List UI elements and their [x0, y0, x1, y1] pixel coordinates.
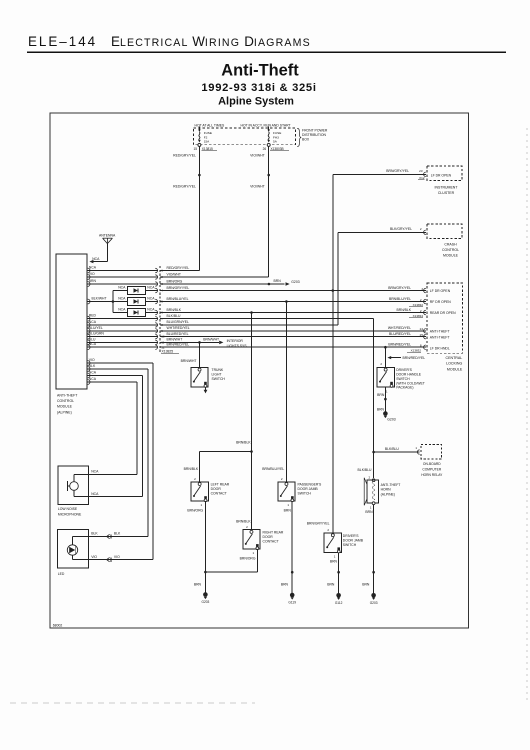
svg-text:X13832: X13832: [411, 349, 422, 353]
svg-text:BRN: BRN: [330, 560, 338, 564]
svg-text:BRN: BRN: [365, 510, 373, 514]
svg-text:WHT/RED/YEL: WHT/RED/YEL: [167, 326, 190, 330]
svg-text:BLK/GRY/YEL: BLK/GRY/YEL: [390, 227, 412, 231]
svg-text:REAR DR OPEN: REAR DR OPEN: [430, 311, 456, 315]
svg-text:NCA: NCA: [147, 286, 155, 290]
svg-text:15: 15: [193, 147, 197, 151]
svg-text:NCA: NCA: [91, 492, 99, 496]
svg-text:HOT IN ACCY, RUN AND START: HOT IN ACCY, RUN AND START: [241, 124, 291, 128]
svg-text:RF DR OPEN: RF DR OPEN: [430, 300, 451, 304]
svg-text:BRN/RED/YEL: BRN/RED/YEL: [403, 356, 426, 360]
svg-text:G203: G203: [370, 601, 378, 605]
svg-text:BRN/BLK: BRN/BLK: [236, 441, 251, 445]
svg-text:VIO/WHT: VIO/WHT: [167, 272, 182, 276]
svg-text:NCA: NCA: [147, 308, 155, 312]
svg-text:PACKAGE): PACKAGE): [396, 386, 413, 390]
svg-text:BRN/BLK: BRN/BLK: [396, 308, 411, 312]
svg-text:ANTI-THEFT: ANTI-THEFT: [430, 335, 450, 339]
svg-text:ELECTRICAL WIRING DIAGRAMS: ELECTRICAL WIRING DIAGRAMS: [111, 34, 311, 49]
svg-text:15A: 15A: [204, 139, 210, 143]
svg-text:G203: G203: [201, 600, 209, 604]
svg-text:RED/GRY/YEL: RED/GRY/YEL: [173, 184, 196, 188]
svg-text:BLU/GRN/YEL: BLU/GRN/YEL: [167, 320, 190, 324]
svg-text:LED: LED: [58, 572, 65, 576]
svg-text:BRN/RED/YEL: BRN/RED/YEL: [167, 343, 190, 347]
svg-text:SWITCH: SWITCH: [396, 377, 410, 381]
svg-text:CENTRAL: CENTRAL: [446, 356, 463, 360]
svg-text:FRONT POWER: FRONT POWER: [302, 129, 328, 133]
svg-text:HORN RELAY: HORN RELAY: [421, 473, 443, 477]
svg-text:CRASH: CRASH: [444, 242, 457, 246]
svg-text:ANTENNA: ANTENNA: [99, 234, 116, 238]
svg-text:Anti-Theft: Anti-Theft: [221, 62, 299, 80]
svg-text:BRN/BLK: BRN/BLK: [236, 520, 251, 524]
svg-text:BOX: BOX: [302, 138, 310, 142]
svg-text:INTERIOR: INTERIOR: [227, 339, 244, 343]
svg-text:25: 25: [420, 333, 424, 337]
svg-text:BLK/BLU: BLK/BLU: [358, 468, 372, 472]
svg-text:BRN/BLU/YEL: BRN/BLU/YEL: [167, 297, 189, 301]
svg-text:CONTACT: CONTACT: [211, 492, 227, 496]
svg-text:LF DR OPEN: LF DR OPEN: [431, 173, 452, 177]
svg-text:BLK/BLU: BLK/BLU: [385, 447, 399, 451]
svg-text:BRN: BRN: [362, 583, 370, 587]
svg-text:CONTROL: CONTROL: [442, 248, 459, 252]
svg-text:X13834: X13834: [413, 314, 424, 318]
svg-text:Alpine System: Alpine System: [218, 96, 294, 108]
svg-text:MODULE: MODULE: [447, 367, 463, 371]
svg-text:G119: G119: [288, 601, 296, 605]
svg-text:RED/GRY/YEL: RED/GRY/YEL: [167, 266, 190, 270]
svg-text:BRN/GRY/YEL: BRN/GRY/YEL: [307, 521, 330, 525]
svg-text:BRN: BRN: [274, 279, 282, 283]
svg-text:LIGHTS SYS: LIGHTS SYS: [227, 344, 248, 348]
svg-text:BRN/ORG: BRN/ORG: [187, 508, 203, 512]
svg-text:DOOR JAMB: DOOR JAMB: [343, 539, 364, 543]
svg-text:X13832: X13832: [413, 303, 424, 307]
svg-text:RED/GRY/YEL: RED/GRY/YEL: [173, 154, 196, 158]
svg-text:NCA: NCA: [89, 342, 97, 346]
svg-text:LF DR OPEN: LF DR OPEN: [430, 289, 451, 293]
svg-text:BRN/ORG: BRN/ORG: [167, 279, 183, 283]
svg-text:BRN/ORG: BRN/ORG: [240, 556, 256, 560]
svg-text:BRN/BLU/YEL: BRN/BLU/YEL: [389, 297, 411, 301]
svg-text:(ALPINE): (ALPINE): [57, 410, 72, 414]
svg-text:DOOR JAMB: DOOR JAMB: [298, 487, 319, 491]
svg-text:BLK/WHT: BLK/WHT: [92, 296, 107, 300]
svg-text:BRN: BRN: [89, 279, 97, 283]
svg-text:VIO: VIO: [89, 358, 95, 362]
svg-text:CONTACT: CONTACT: [263, 540, 279, 544]
svg-text:RED: RED: [89, 314, 97, 318]
svg-text:NCA: NCA: [91, 470, 99, 474]
svg-text:DRIVER'S: DRIVER'S: [396, 368, 412, 372]
svg-text:BRN/RED/YEL: BRN/RED/YEL: [388, 343, 411, 347]
svg-text:SWITCH: SWITCH: [343, 543, 357, 547]
svg-text:BRN/WHT: BRN/WHT: [203, 338, 219, 342]
svg-text:BLK: BLK: [89, 364, 96, 368]
svg-text:68002: 68002: [53, 624, 63, 628]
svg-text:WHT/RED/YEL: WHT/RED/YEL: [388, 326, 411, 330]
svg-text:NCA: NCA: [89, 377, 97, 381]
svg-text:NCA: NCA: [118, 286, 126, 290]
svg-text:BRN: BRN: [281, 583, 289, 587]
svg-text:G112: G112: [335, 601, 343, 605]
svg-text:MICROPHONE: MICROPHONE: [58, 512, 82, 516]
svg-text:BRN/GRY/YEL: BRN/GRY/YEL: [167, 286, 190, 290]
svg-text:NCA: NCA: [92, 257, 100, 261]
svg-text:BRN/WHT: BRN/WHT: [167, 338, 183, 342]
svg-text:BRN: BRN: [194, 583, 202, 587]
svg-text:NCA: NCA: [118, 308, 126, 312]
svg-text:NCA: NCA: [89, 320, 97, 324]
svg-text:BLK: BLK: [114, 532, 121, 536]
svg-text:BRN/WHT: BRN/WHT: [181, 359, 197, 363]
svg-text:RIGHT REAR: RIGHT REAR: [263, 530, 284, 534]
svg-text:CONTROL: CONTROL: [57, 399, 74, 403]
svg-text:BLK: BLK: [91, 532, 98, 536]
svg-text:BRN/BLK: BRN/BLK: [167, 308, 182, 312]
svg-text:VIO: VIO: [114, 555, 120, 559]
svg-text:BLU/YEL: BLU/YEL: [89, 326, 103, 330]
svg-text:ELE–144: ELE–144: [28, 34, 97, 49]
svg-text:1992-93 318i & 325i: 1992-93 318i & 325i: [201, 82, 316, 94]
svg-text:VIO: VIO: [91, 555, 97, 559]
svg-text:DOOR: DOOR: [263, 535, 274, 539]
svg-text:DOOR: DOOR: [211, 487, 222, 491]
svg-text:DISTRIBUTION: DISTRIBUTION: [302, 133, 326, 137]
svg-text:MODULE: MODULE: [57, 405, 73, 409]
svg-text:LEFT REAR: LEFT REAR: [211, 482, 230, 486]
svg-text:BRN: BRN: [377, 408, 385, 412]
svg-text:BRN: BRN: [377, 393, 385, 397]
svg-text:24: 24: [420, 327, 424, 331]
svg-text:NCA: NCA: [89, 371, 97, 375]
svg-text:ON-BOARD: ON-BOARD: [423, 462, 441, 466]
svg-text:BLU/RED/YEL: BLU/RED/YEL: [167, 332, 189, 336]
svg-text:DOOR HANDLE: DOOR HANDLE: [396, 373, 422, 377]
svg-text:X12: X12: [419, 176, 425, 180]
svg-text:CLUSTER: CLUSTER: [438, 191, 455, 195]
svg-text:ANTI-THEFT: ANTI-THEFT: [430, 329, 450, 333]
svg-text:BLU: BLU: [89, 337, 96, 341]
svg-text:INSTRUMENT: INSTRUMENT: [435, 185, 459, 189]
svg-text:VIO/WHT: VIO/WHT: [250, 154, 265, 158]
svg-text:X13803B: X13803B: [271, 147, 284, 151]
svg-text:LOCKING: LOCKING: [446, 362, 462, 366]
svg-text:LOW NOISE: LOW NOISE: [58, 507, 78, 511]
svg-text:BRN/GRY/YEL: BRN/GRY/YEL: [386, 169, 409, 173]
svg-text:BRN: BRN: [327, 583, 335, 587]
svg-text:ANTI-THEFT: ANTI-THEFT: [381, 483, 401, 487]
svg-text:SWITCH: SWITCH: [298, 492, 312, 496]
svg-text:G203: G203: [387, 418, 395, 422]
svg-text:(ALPINE): (ALPINE): [381, 492, 395, 496]
svg-text:X13825: X13825: [162, 349, 174, 353]
svg-text:NCA: NCA: [89, 266, 97, 270]
svg-text:NCA: NCA: [118, 297, 126, 301]
svg-text:23: 23: [419, 169, 423, 173]
svg-text:BRN: BRN: [284, 508, 292, 512]
svg-text:LF DR HNDL: LF DR HNDL: [430, 346, 450, 350]
svg-text:ANTI-THEFT: ANTI-THEFT: [57, 394, 78, 398]
svg-text:MODULE: MODULE: [443, 254, 459, 258]
svg-text:BLK/BLU: BLK/BLU: [167, 314, 181, 318]
svg-text:LIGHT: LIGHT: [212, 373, 222, 377]
svg-text:COMPUTER: COMPUTER: [422, 468, 441, 472]
svg-text:TRUNK: TRUNK: [212, 368, 224, 372]
svg-text:BRN/BLU/YEL: BRN/BLU/YEL: [262, 467, 284, 471]
svg-text:26: 26: [263, 147, 267, 151]
svg-text:BRN/BLK: BRN/BLK: [184, 467, 199, 471]
svg-text:PASSENGER'S: PASSENGER'S: [298, 482, 322, 486]
svg-text:NCA: NCA: [147, 297, 155, 301]
svg-text:BLU/GRN: BLU/GRN: [89, 332, 105, 336]
svg-text:HORN: HORN: [381, 488, 392, 492]
svg-text:DRIVER'S: DRIVER'S: [343, 534, 359, 538]
svg-text:SWITCH: SWITCH: [212, 377, 226, 381]
svg-text:VIO: VIO: [89, 272, 95, 276]
svg-text:BRN/GRY/YEL: BRN/GRY/YEL: [388, 286, 411, 290]
svg-text:(WITH COLD/WET: (WITH COLD/WET: [396, 381, 425, 385]
svg-text:X13815: X13815: [202, 147, 213, 151]
svg-text:BLU/RED/YEL: BLU/RED/YEL: [389, 332, 411, 336]
svg-text:G203: G203: [291, 280, 299, 284]
svg-text:VIO/WHT: VIO/WHT: [250, 184, 265, 188]
